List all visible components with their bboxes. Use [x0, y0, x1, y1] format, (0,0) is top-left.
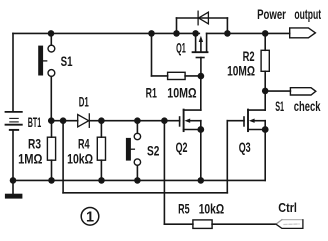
resistor R5 [164, 220, 276, 229]
svg-text:Q3: Q3 [239, 139, 251, 155]
node R5 top [161, 117, 168, 124]
switch S1 [38, 33, 55, 120]
node Q2 source [197, 126, 204, 133]
node R1 top [148, 30, 155, 37]
node diode left [173, 30, 180, 37]
svg-text:R5: R5 [178, 201, 190, 217]
wire gate link down [62, 121, 64, 193]
svg-text:Power: Power [257, 7, 286, 22]
wire battery positive lead [12, 33, 14, 111]
node battery/ground junction [10, 177, 17, 184]
wire gate link across [63, 192, 227, 194]
wire top rail right [207, 32, 290, 34]
wire ground rail [13, 179, 265, 181]
node R1/Q1 gate [198, 73, 205, 80]
wire middle rail left of D1 [49, 120, 78, 122]
svg-text:Ctrl: Ctrl [278, 200, 297, 215]
svg-text:10kΩ: 10kΩ [199, 201, 225, 217]
ground [5, 180, 23, 198]
transistor Q1 [193, 33, 208, 76]
transistor Q2 [180, 76, 201, 180]
resistor R2 [261, 33, 269, 91]
svg-text:S1: S1 [61, 53, 73, 69]
node S2 top [134, 117, 141, 124]
resistor R3 [47, 121, 55, 181]
svg-text:R1: R1 [146, 84, 157, 100]
svg-text:check: check [294, 99, 321, 114]
svg-text:R4: R4 [78, 135, 90, 151]
wire R5 vertical [163, 121, 165, 225]
node gate-link vertical [60, 117, 67, 124]
svg-text:D1: D1 [79, 94, 89, 110]
node Q2 source ground [198, 177, 205, 184]
node R2 bottom [262, 88, 269, 95]
svg-text:10MΩ: 10MΩ [167, 84, 196, 100]
figure number 1 [81, 208, 99, 226]
svg-text:10kΩ: 10kΩ [67, 150, 93, 166]
svg-text:10MΩ: 10MΩ [227, 62, 255, 78]
transistor Q3 [244, 91, 265, 180]
node R3 bottom [48, 177, 55, 184]
wire S1 check [265, 90, 290, 92]
diode bridge over Q1 [177, 18, 228, 33]
wire gate link up [226, 121, 228, 193]
svg-text:output: output [294, 7, 321, 22]
svg-text:1MΩ: 1MΩ [18, 151, 42, 167]
svg-text:Q2: Q2 [176, 139, 188, 155]
node S1 top [48, 30, 55, 37]
wire top rail left [13, 32, 199, 34]
node R4 bottom [98, 177, 105, 184]
node R2 top [262, 30, 269, 37]
node Q3 source [262, 126, 269, 133]
node S1/R3 [48, 117, 55, 124]
diode unlabeled (over Q1) [198, 11, 208, 25]
svg-text:R3: R3 [28, 136, 41, 152]
tag Ctrl [276, 220, 303, 229]
diode D1 [78, 114, 90, 127]
resistor R4 [97, 121, 105, 181]
wire Q3 gate lead [227, 120, 244, 122]
svg-text:Q1: Q1 [176, 40, 186, 56]
tag S1 check [290, 88, 315, 95]
tag Power output [290, 28, 316, 38]
svg-text:BT1: BT1 [28, 114, 42, 130]
switch S2 [126, 121, 141, 181]
battery BT1 [6, 112, 22, 130]
node S2 bottom [134, 177, 141, 184]
svg-text:1: 1 [86, 210, 94, 226]
node Q1 drain [192, 30, 199, 37]
svg-text:S1: S1 [275, 99, 284, 114]
resistor R1 [152, 33, 201, 79]
svg-text:S2: S2 [147, 142, 160, 158]
node R4 top [98, 117, 105, 124]
node diode right [224, 30, 231, 37]
wire battery negative lead [12, 131, 14, 181]
wire middle rail right of D1 [89, 120, 179, 122]
